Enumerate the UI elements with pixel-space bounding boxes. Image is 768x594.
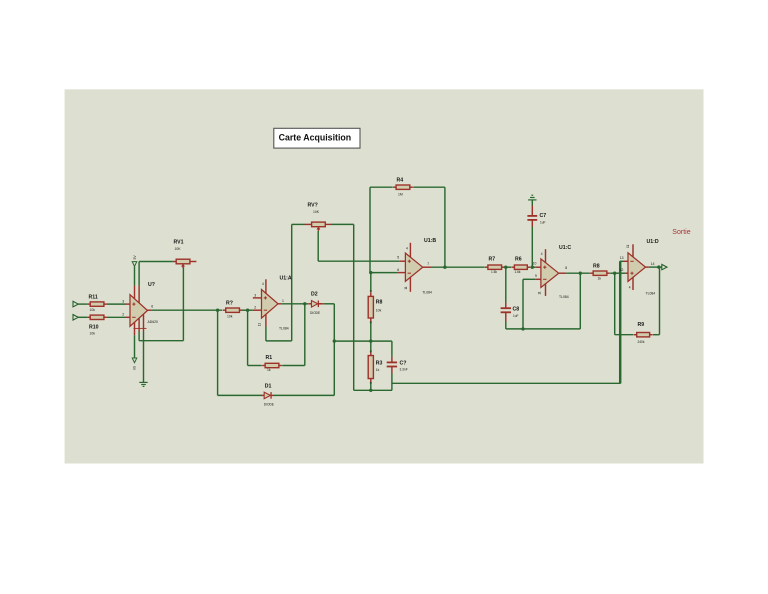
svg-text:TL084: TL084 xyxy=(646,291,656,295)
svg-text:U1:D: U1:D xyxy=(647,239,659,245)
svg-text:4: 4 xyxy=(406,246,408,250)
svg-text:TL084: TL084 xyxy=(279,327,289,331)
svg-text:14: 14 xyxy=(651,262,655,266)
svg-text:R11: R11 xyxy=(89,295,98,301)
svg-text:1: 1 xyxy=(282,299,284,303)
svg-text:Carte Acquisition: Carte Acquisition xyxy=(279,133,352,143)
svg-text:TL084: TL084 xyxy=(559,295,569,299)
svg-text:10: 10 xyxy=(533,261,537,265)
svg-text:10k: 10k xyxy=(90,308,96,312)
svg-text:U?: U? xyxy=(148,282,155,288)
svg-text:11: 11 xyxy=(626,244,630,248)
svg-text:R9: R9 xyxy=(638,322,645,328)
svg-text:D1: D1 xyxy=(265,384,272,390)
svg-text:1k: 1k xyxy=(598,277,602,281)
svg-text:11: 11 xyxy=(538,291,542,295)
svg-text:5: 5 xyxy=(397,256,399,260)
svg-text:7: 7 xyxy=(427,262,429,266)
svg-text:1uF: 1uF xyxy=(540,221,546,225)
svg-text:4: 4 xyxy=(262,282,264,286)
svg-text:10K: 10K xyxy=(175,247,182,251)
svg-text:DIODE: DIODE xyxy=(264,402,274,406)
svg-text:10k: 10k xyxy=(376,309,382,313)
svg-text:6: 6 xyxy=(151,305,153,309)
svg-text:U1:A: U1:A xyxy=(280,276,292,282)
svg-text:4: 4 xyxy=(629,285,631,289)
svg-text:R1: R1 xyxy=(266,355,273,361)
svg-text:R6: R6 xyxy=(515,257,522,263)
svg-text:C8: C8 xyxy=(513,306,520,312)
svg-text:1M: 1M xyxy=(398,193,403,197)
svg-text:R3: R3 xyxy=(376,361,383,367)
svg-text:1k: 1k xyxy=(376,368,380,372)
svg-text:11: 11 xyxy=(404,286,408,290)
svg-text:DIODE: DIODE xyxy=(310,311,320,315)
svg-text:1k: 1k xyxy=(267,368,271,372)
svg-text:5V: 5V xyxy=(132,366,136,371)
svg-text:C?: C? xyxy=(400,360,407,366)
svg-text:9: 9 xyxy=(535,274,537,278)
svg-text:10K: 10K xyxy=(313,210,320,214)
svg-text:5V: 5V xyxy=(133,255,137,260)
svg-text:D2: D2 xyxy=(311,291,318,297)
svg-text:R?: R? xyxy=(226,300,233,306)
svg-text:12: 12 xyxy=(620,268,624,272)
svg-text:13: 13 xyxy=(620,256,624,260)
svg-text:3: 3 xyxy=(254,294,256,298)
svg-text:3: 3 xyxy=(122,300,124,304)
svg-text:10k: 10k xyxy=(90,332,96,336)
svg-text:RV?: RV? xyxy=(308,202,318,208)
svg-text:R4: R4 xyxy=(397,178,404,184)
svg-text:6: 6 xyxy=(397,268,399,272)
svg-text:3.3nF: 3.3nF xyxy=(400,367,408,371)
svg-text:1.5k: 1.5k xyxy=(491,270,497,274)
svg-text:AD620: AD620 xyxy=(148,320,158,324)
svg-text:240k: 240k xyxy=(638,340,645,344)
svg-text:RV1: RV1 xyxy=(174,240,184,246)
svg-text:R8: R8 xyxy=(593,264,600,270)
svg-text:TL084: TL084 xyxy=(422,291,432,295)
svg-text:1.6k: 1.6k xyxy=(515,270,521,274)
svg-text:R10: R10 xyxy=(89,325,99,331)
svg-text:2: 2 xyxy=(122,313,124,317)
svg-text:Sortie: Sortie xyxy=(672,229,690,236)
svg-text:10k: 10k xyxy=(227,315,233,319)
svg-text:1uF: 1uF xyxy=(513,314,519,318)
svg-text:4: 4 xyxy=(541,252,543,256)
svg-text:8: 8 xyxy=(565,266,567,270)
svg-text:R7: R7 xyxy=(489,257,496,263)
svg-text:2: 2 xyxy=(254,306,256,310)
svg-text:R8: R8 xyxy=(376,300,383,306)
svg-text:U1:C: U1:C xyxy=(559,245,571,251)
svg-text:U1:B: U1:B xyxy=(424,238,436,244)
svg-text:11: 11 xyxy=(257,323,261,327)
svg-text:C7: C7 xyxy=(540,213,547,219)
